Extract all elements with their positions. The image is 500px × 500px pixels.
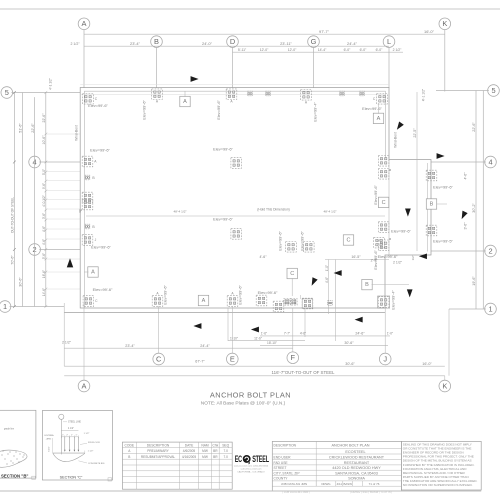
svg-text:30'-6": 30'-6" bbox=[345, 362, 355, 366]
panel C steel line leader bbox=[60, 419, 62, 454]
svg-text:EC: EC bbox=[235, 454, 243, 465]
left dim segment ticks bbox=[44, 91, 47, 94]
arrow down right-top bbox=[395, 122, 404, 132]
svg-text:A: A bbox=[94, 160, 97, 164]
interior bolt near right row2 bbox=[374, 237, 385, 248]
svg-text:F: F bbox=[291, 353, 296, 362]
grid bubble 5 right bbox=[488, 85, 500, 97]
grid bubble F bottom bbox=[287, 352, 299, 364]
panel C concrete break line bbox=[53, 453, 85, 462]
anchor bolt bottom col E bbox=[227, 296, 238, 307]
svg-text:THE FABRICATOR ARE SPECIFICALL: THE FABRICATOR ARE SPECIFICALLY EXCLUDED… bbox=[403, 479, 478, 483]
svg-text:16'-0": 16'-0" bbox=[422, 362, 432, 366]
svg-text:Elev=99'-6": Elev=99'-6" bbox=[373, 185, 378, 205]
top dimension row 3 bbox=[233, 51, 404, 53]
svg-text:4: 4 bbox=[488, 157, 492, 166]
north arrow top bbox=[191, 76, 199, 82]
svg-text:4'-6": 4'-6" bbox=[42, 226, 46, 232]
svg-text:Elev=99'-5": Elev=99'-5" bbox=[433, 239, 453, 244]
sheet bottom border bbox=[0, 490, 481, 492]
small bolt top edge 3 bbox=[340, 91, 345, 96]
grid bubble E bottom bbox=[227, 353, 239, 365]
svg-text:4 1/2": 4 1/2" bbox=[68, 428, 74, 430]
arrow left bottom 2 bbox=[251, 327, 259, 333]
svg-text:B: B bbox=[92, 225, 95, 229]
svg-text:24'-4": 24'-4" bbox=[347, 41, 358, 46]
panel B concrete blob bbox=[0, 450, 27, 467]
svg-text:4420 OLD REDWOOD HWY: 4420 OLD REDWOOD HWY bbox=[332, 466, 381, 470]
svg-text:OUT-TO-OUT OF STEEL: OUT-TO-OUT OF STEEL bbox=[11, 197, 15, 233]
svg-text:18'-10": 18'-10" bbox=[267, 341, 277, 345]
svg-text:SECTION "B": SECTION "B" bbox=[1, 473, 28, 478]
svg-text:Elev=99'-6": Elev=99'-6" bbox=[91, 245, 111, 250]
svg-text:1: 1 bbox=[3, 302, 7, 311]
svg-text:Elev=99'-6": Elev=99'-6" bbox=[216, 100, 221, 120]
svg-text:30'-6": 30'-6" bbox=[19, 277, 23, 287]
solid box around corner bolt bbox=[378, 296, 390, 308]
svg-text:END USER: END USER bbox=[274, 456, 292, 460]
svg-text:E: E bbox=[230, 354, 235, 363]
svg-text:+BRG: +BRG bbox=[46, 439, 52, 441]
svg-text:A: A bbox=[230, 100, 233, 104]
leader from box B wing bbox=[437, 203, 447, 205]
svg-text:CONCRETE B/S: CONCRETE B/S bbox=[88, 463, 105, 465]
svg-text:6'-0": 6'-0" bbox=[344, 48, 352, 52]
svg-text:A: A bbox=[377, 116, 381, 122]
svg-text:FOUNDATION ANALYSIS, ELECTRICA: FOUNDATION ANALYSIS, ELECTRICAL AND bbox=[403, 467, 467, 471]
grid line 2 left bbox=[39, 249, 80, 251]
svg-text:| DRWG | 4/11 | BASW | 71 of 7: | DRWG | 4/11 | BASW | 71 of 76 | bbox=[350, 490, 393, 494]
svg-text:6'-0": 6'-0" bbox=[376, 48, 384, 52]
column box C notch bbox=[287, 268, 297, 278]
grid bubble A top bbox=[78, 18, 90, 30]
anchor bolt left edge row J bbox=[82, 235, 93, 246]
interior bolt D4 bbox=[231, 158, 242, 169]
svg-text:Elev=99'-6": Elev=99'-6" bbox=[278, 231, 283, 251]
svg-text:MW: MW bbox=[202, 455, 208, 459]
panel C small dims bbox=[62, 436, 79, 438]
grid bubble B top bbox=[151, 36, 163, 48]
svg-text:MW: MW bbox=[202, 449, 208, 453]
svg-text:12'-0": 12'-0" bbox=[260, 48, 269, 52]
grid bubble G top bbox=[308, 36, 320, 48]
anchor bolt right edge r2a bbox=[378, 222, 389, 233]
svg-text:4'-6": 4'-6" bbox=[300, 332, 306, 336]
svg-text:B: B bbox=[430, 202, 434, 208]
svg-text:116'-7"OUT-TO-OUT OF STEEL: 116'-7"OUT-TO-OUT OF STEEL bbox=[272, 370, 335, 375]
svg-text:10'-6": 10'-6" bbox=[42, 135, 46, 145]
anchor bolt top edge col D bbox=[226, 89, 237, 100]
grid line 4 right bbox=[431, 161, 486, 163]
column box A top mid bbox=[180, 96, 190, 106]
svg-text:K: K bbox=[442, 381, 447, 390]
svg-text:1'-0": 1'-0" bbox=[387, 332, 393, 336]
svg-text:7.0: 7.0 bbox=[223, 449, 228, 453]
bottom dim row C (y348) left bbox=[64, 347, 293, 349]
svg-text:Wind-Bent: Wind-Bent bbox=[394, 132, 398, 148]
svg-text:1'-0": 1'-0" bbox=[325, 265, 329, 271]
svg-text:Elev=99'-6": Elev=99'-6" bbox=[258, 290, 278, 295]
svg-text:B: B bbox=[154, 37, 159, 46]
grid bubble A bottom bbox=[78, 380, 90, 392]
svg-text:A: A bbox=[231, 292, 234, 296]
leader from box B right bbox=[372, 284, 410, 286]
arrow down mid-right bbox=[405, 209, 411, 217]
svg-text:SANTA ROSA, CA 95403: SANTA ROSA, CA 95403 bbox=[335, 471, 378, 475]
arrow down bottom right bbox=[407, 289, 413, 297]
right dimension verticals bbox=[475, 91, 477, 310]
svg-text:22'-6": 22'-6" bbox=[42, 113, 46, 123]
svg-text:2 1/2": 2 1/2" bbox=[393, 48, 403, 52]
svg-text:PRELIMINARY: PRELIMINARY bbox=[147, 449, 169, 453]
svg-text:30'-6": 30'-6" bbox=[344, 341, 354, 345]
svg-text:(Hold This Dimension): (Hold This Dimension) bbox=[257, 208, 290, 212]
wing inner lines bbox=[388, 160, 390, 256]
svg-text:DESIGN OF THE METAL BUILDING S: DESIGN OF THE METAL BUILDING SYSTEM AS bbox=[403, 459, 472, 463]
svg-text:BR: BR bbox=[213, 449, 218, 453]
grid bubble K top bbox=[439, 18, 451, 30]
svg-text:CITY, STATE, ZIP: CITY, STATE, ZIP bbox=[274, 471, 301, 475]
anchor bolt wing upper bbox=[426, 170, 437, 181]
svg-text:Elev=99'-6": Elev=99'-6" bbox=[213, 217, 233, 222]
svg-text:1": 1" bbox=[76, 435, 78, 437]
bottom small dim row A (y336) bbox=[260, 335, 390, 337]
grid line B leader bbox=[156, 46, 158, 88]
svg-text:SECTION "C": SECTION "C" bbox=[60, 476, 83, 480]
grid bubble C bottom bbox=[153, 353, 165, 365]
left extension lines from building edge bbox=[46, 133, 80, 135]
arrow left notch bbox=[334, 270, 342, 276]
svg-text:Chk: Chk bbox=[212, 443, 218, 447]
anchor bolt right edge r4b bbox=[378, 169, 389, 180]
svg-text:NO INSPECTION OR SUPERVISION I: NO INSPECTION OR SUPERVISION IS IMPLIED. bbox=[403, 483, 473, 487]
grid bubble 4 left bbox=[29, 156, 41, 168]
svg-text:1": 1" bbox=[62, 435, 64, 437]
grid line K leader bbox=[444, 29, 446, 91]
grid bubble 1 left bbox=[0, 301, 11, 313]
svg-text:23'-4": 23'-4" bbox=[125, 344, 135, 348]
leader column box A top bbox=[184, 92, 186, 98]
svg-text:J: J bbox=[95, 238, 97, 242]
svg-text:A: A bbox=[202, 298, 206, 304]
svg-text:3'-6": 3'-6" bbox=[464, 222, 468, 230]
top dimension row 2 bbox=[84, 45, 389, 47]
title block table bbox=[272, 441, 401, 491]
column box C right edge bbox=[378, 197, 388, 207]
bottom small dim row B (y341) bbox=[228, 340, 305, 342]
svg-text:9'-6": 9'-6" bbox=[42, 183, 46, 189]
svg-text:4'-6": 4'-6" bbox=[260, 255, 268, 259]
svg-text:71 of 76: 71 of 76 bbox=[369, 482, 380, 486]
top dimension row 1 bbox=[84, 33, 445, 35]
svg-text:CRICKLEWOOD RESTAURANT: CRICKLEWOOD RESTAURANT bbox=[329, 456, 385, 460]
grid bubble K bottom bbox=[439, 380, 451, 392]
grid line 4 left bbox=[39, 161, 80, 163]
anchor bolt top-right corner bbox=[377, 94, 388, 105]
svg-text:Elev=99'-6": Elev=99'-6" bbox=[93, 287, 113, 292]
grid line 5 right bbox=[436, 90, 489, 92]
anchor bolt step pair a bbox=[284, 299, 291, 306]
bottom dim row D (y366) bbox=[64, 365, 445, 367]
svg-text:23'-11": 23'-11" bbox=[280, 41, 292, 46]
svg-text:1/2": 1/2" bbox=[411, 255, 415, 260]
svg-text:C: C bbox=[95, 97, 98, 101]
interior bolt F2a bbox=[286, 242, 297, 253]
svg-text:48'-4 1/2": 48'-4 1/2" bbox=[323, 210, 336, 214]
anchor bolt step pair b bbox=[291, 299, 298, 306]
svg-text:4/11: 4/11 bbox=[337, 482, 343, 486]
svg-text:7'-7": 7'-7" bbox=[284, 332, 290, 336]
svg-text:STEEL LINE: STEEL LINE bbox=[68, 422, 81, 424]
grid line L leader bbox=[388, 46, 390, 88]
svg-text:67'-7": 67'-7" bbox=[195, 359, 205, 363]
grid line D leader bbox=[232, 46, 234, 88]
small bolt top edge 1 bbox=[248, 91, 253, 96]
svg-text:SEQ: SEQ bbox=[222, 443, 229, 447]
svg-text:J: J bbox=[383, 354, 387, 363]
svg-text:Elev=99'-6": Elev=99'-6" bbox=[378, 254, 398, 259]
revision table bbox=[122, 442, 232, 489]
svg-text:Elev=99'-6": Elev=99'-6" bbox=[238, 285, 243, 305]
anchor bolt top edge mid bbox=[301, 90, 312, 101]
solid box around bolt 307 bbox=[302, 299, 313, 308]
svg-text:CALIFORNIA - COLORADO: CALIFORNIA - COLORADO bbox=[237, 471, 265, 474]
svg-text:A: A bbox=[128, 449, 131, 453]
svg-text:1'-10": 1'-10" bbox=[230, 336, 238, 340]
svg-text:22'-6": 22'-6" bbox=[31, 123, 35, 133]
small bolt left edge B1 bbox=[85, 175, 90, 180]
grid line 1 left bbox=[10, 306, 64, 308]
svg-text:7.0: 7.0 bbox=[223, 455, 228, 459]
svg-text:16'-0": 16'-0" bbox=[424, 29, 435, 34]
svg-text:51'-6": 51'-6" bbox=[19, 123, 23, 133]
svg-text:A: A bbox=[91, 270, 95, 276]
svg-text:5'-11": 5'-11" bbox=[238, 48, 247, 52]
arrow up left edge bbox=[67, 258, 73, 267]
svg-text:MECHANICAL SYSTEMS AND / OR OT: MECHANICAL SYSTEMS AND / OR OTHER bbox=[403, 471, 466, 475]
svg-text:ANCHOR BOLT PLAN: ANCHOR BOLT PLAN bbox=[210, 390, 291, 399]
grid line G leader bbox=[313, 46, 315, 88]
svg-text:1: 1 bbox=[488, 304, 492, 313]
svg-text:BR: BR bbox=[213, 455, 218, 459]
svg-text:22'-6": 22'-6" bbox=[472, 122, 476, 132]
svg-text:70'-6": 70'-6" bbox=[11, 255, 15, 265]
small bolt top edge 2 bbox=[266, 91, 271, 96]
svg-text:48'-4 1/2": 48'-4 1/2" bbox=[173, 210, 186, 214]
svg-text:C: C bbox=[290, 271, 294, 277]
column box B wing bbox=[426, 199, 436, 209]
svg-text:M: M bbox=[389, 237, 392, 241]
column box A left lower bbox=[88, 267, 98, 277]
anchor bolt bottom-left corner bbox=[83, 296, 94, 307]
anchor bolt left edge cluster a bbox=[82, 192, 93, 203]
grid bubble J bottom bbox=[379, 353, 391, 365]
grid bubble 2 right bbox=[485, 245, 497, 257]
anchor bolt bottom-right corner bbox=[378, 297, 389, 308]
svg-text:2 1/2": 2 1/2" bbox=[393, 261, 403, 265]
notch dim lines bbox=[325, 259, 389, 261]
svg-text:PROFESSIONAL FOR THIS PROJECT.: PROFESSIONAL FOR THIS PROJECT. ONLY THE bbox=[403, 455, 474, 459]
arrow left bottom mid bbox=[355, 317, 363, 323]
grid line 5 left bbox=[11, 92, 80, 94]
building inner wall lines bbox=[84, 90, 385, 92]
svg-text:DESCRIPTION: DESCRIPTION bbox=[147, 443, 170, 447]
arrow left bottom 1 bbox=[193, 323, 201, 329]
anchor bolt bottom 278 bbox=[273, 301, 284, 312]
svg-text:Elev=99'-6": Elev=99'-6" bbox=[213, 147, 233, 152]
anchor bolt right edge r2b bbox=[378, 240, 389, 251]
svg-text:23'-4": 23'-4" bbox=[130, 41, 141, 46]
svg-text:3": 3" bbox=[79, 209, 82, 213]
svg-text:24'-4": 24'-4" bbox=[200, 344, 210, 348]
svg-text:G: G bbox=[311, 37, 317, 46]
svg-text:4/16/2005: 4/16/2005 bbox=[182, 455, 196, 459]
svg-text:4'-1 1/2": 4'-1 1/2" bbox=[422, 88, 426, 101]
svg-text:B: B bbox=[92, 176, 95, 180]
svg-text:2": 2" bbox=[71, 435, 73, 437]
svg-text:Elev=99'-4": Elev=99'-4" bbox=[313, 102, 318, 122]
svg-text:12'-0": 12'-0" bbox=[288, 48, 297, 52]
svg-text:16'-6": 16'-6" bbox=[42, 270, 46, 278]
panel C dim 4 1/2 bbox=[61, 429, 78, 431]
svg-text:Elev=99'-6": Elev=99'-6" bbox=[90, 148, 110, 153]
svg-text:4'-0 1/2": 4'-0 1/2" bbox=[42, 195, 46, 207]
svg-text:Elev=99'-6": Elev=99'-6" bbox=[88, 103, 108, 108]
svg-text:Elev=99'-4": Elev=99'-4" bbox=[391, 290, 396, 310]
svg-text:C: C bbox=[382, 200, 386, 206]
svg-text:A: A bbox=[82, 19, 87, 28]
notes box bbox=[401, 441, 481, 490]
svg-text:19'-6": 19'-6" bbox=[472, 276, 476, 286]
column box B bottom right bbox=[362, 279, 372, 289]
small bolt top edge 4 bbox=[360, 91, 365, 96]
svg-text:16'-5": 16'-5" bbox=[351, 255, 361, 259]
svg-text:3'-6": 3'-6" bbox=[42, 213, 46, 219]
svg-text:| JOB DATA-M1 JMN |: | JOB DATA-M1 JMN | bbox=[282, 490, 310, 494]
svg-text:2 1/2": 2 1/2" bbox=[62, 341, 72, 345]
svg-text:6'-0": 6'-0" bbox=[360, 48, 368, 52]
svg-text:Wind-Bent: Wind-Bent bbox=[75, 125, 79, 141]
svg-text:www.ecosteel.com 1-800-587-66: www.ecosteel.com 1-800-587-6604 bbox=[234, 465, 269, 468]
anchor bolt top edge col B bbox=[152, 89, 163, 100]
grid line 2 right bbox=[431, 250, 486, 252]
svg-text:22'-5": 22'-5" bbox=[413, 128, 417, 138]
svg-text:1'-6": 1'-6" bbox=[261, 332, 267, 336]
svg-text:Elev=99'-6": Elev=99'-6" bbox=[300, 231, 305, 251]
svg-text:1 1/2": 1 1/2" bbox=[84, 433, 90, 435]
svg-text:DESCRIPTION: DESCRIPTION bbox=[274, 444, 297, 448]
left dimension verticals bbox=[13, 93, 15, 307]
svg-text:JOB DATA-M1 JMN: JOB DATA-M1 JMN bbox=[281, 482, 307, 486]
svg-text:Elev=99'-6": Elev=99'-6" bbox=[362, 106, 382, 111]
svg-text:4'-6": 4'-6" bbox=[42, 239, 46, 245]
svg-text:COUNTY: COUNTY bbox=[274, 477, 289, 481]
svg-text:5: 5 bbox=[5, 88, 9, 97]
svg-text:1 1/2": 1 1/2" bbox=[88, 451, 94, 453]
svg-text:CODE: CODE bbox=[125, 443, 135, 447]
svg-text:4'-6": 4'-6" bbox=[464, 172, 468, 180]
svg-text:Elev=99'-6": Elev=99'-6" bbox=[373, 250, 378, 270]
svg-text:M: M bbox=[389, 168, 392, 172]
anchor bolt left edge cluster b bbox=[82, 199, 93, 210]
interior bolt D2 bbox=[231, 229, 242, 240]
column box A bottom bbox=[198, 295, 208, 305]
svg-text:B: B bbox=[365, 282, 369, 288]
arrow left wing bottom bbox=[419, 253, 427, 259]
bottom extension lines bbox=[83, 303, 85, 382]
svg-text:24'-0": 24'-0" bbox=[202, 41, 213, 46]
svg-text:grade line: grade line bbox=[4, 427, 15, 430]
column box A top right bbox=[373, 113, 383, 123]
panel C detail circle bbox=[59, 414, 64, 419]
svg-text:2": 2" bbox=[66, 435, 68, 437]
svg-text:L: L bbox=[387, 37, 391, 46]
svg-text:DATE: DATE bbox=[185, 443, 194, 447]
svg-text:K: K bbox=[442, 19, 447, 28]
svg-text:C: C bbox=[156, 354, 162, 363]
svg-text:11'-6": 11'-6" bbox=[254, 336, 262, 340]
svg-text:30'-2": 30'-2" bbox=[472, 203, 476, 213]
svg-text:DRWG: DRWG bbox=[321, 482, 331, 486]
svg-text:Elev=99'-6": Elev=99'-6" bbox=[163, 285, 168, 305]
grid bubble L top bbox=[383, 36, 395, 48]
svg-text:B: B bbox=[128, 455, 130, 459]
svg-text:FAD USE: FAD USE bbox=[274, 461, 289, 465]
EcoSteel logo bbox=[235, 454, 270, 465]
interior bolt F2b bbox=[304, 242, 315, 253]
anchor bolt right edge r4a bbox=[378, 156, 389, 167]
svg-text:sales@eco-steel.com: sales@eco-steel.com bbox=[241, 468, 262, 471]
anchor bolt bottom 261 bbox=[256, 295, 267, 306]
svg-text:A: A bbox=[183, 99, 187, 105]
svg-text:4'-1 1/2": 4'-1 1/2" bbox=[49, 78, 53, 90]
svg-text:FURNISHED BY THE FABRICATOR IS: FURNISHED BY THE FABRICATOR IS INCLUDED. bbox=[403, 463, 475, 467]
interior wall x336 bbox=[335, 260, 337, 309]
building outline outer steel line bbox=[80, 88, 431, 309]
svg-text:OR CONSTITUTE THAT THE ENGINEE: OR CONSTITUTE THAT THE ENGINEER IS THE bbox=[403, 446, 472, 450]
svg-text:4/6/2005: 4/6/2005 bbox=[183, 449, 196, 453]
interior vertical dim line mid-right bbox=[416, 92, 418, 251]
anchor bolt left edge row4 bbox=[82, 156, 93, 167]
svg-text:ECOSTEEL: ECOSTEEL bbox=[345, 450, 365, 454]
svg-text:C: C bbox=[95, 299, 98, 303]
panel C anchor rods bbox=[64, 437, 66, 451]
svg-text:A: A bbox=[156, 292, 159, 296]
sheet top border bbox=[0, 8, 500, 10]
detail panel B box bbox=[0, 410, 36, 478]
svg-text:5'-0": 5'-0" bbox=[42, 169, 46, 175]
svg-text:A: A bbox=[156, 100, 159, 104]
grid bubble 4 right bbox=[485, 156, 497, 168]
svg-text:Elev=99'-6": Elev=99'-6" bbox=[391, 229, 411, 234]
svg-text:5'-6": 5'-6" bbox=[42, 253, 46, 259]
anchor bolt bottom 308 bbox=[302, 298, 313, 309]
svg-text:E/STRNA: E/STRNA bbox=[45, 434, 55, 437]
svg-text:BASW: BASW bbox=[343, 482, 352, 486]
svg-text:STREET: STREET bbox=[274, 466, 287, 470]
svg-text:FIN FLOOR: FIN FLOOR bbox=[88, 442, 100, 444]
svg-text:2: 2 bbox=[488, 246, 492, 255]
svg-text:A: A bbox=[305, 100, 308, 104]
svg-text:2 1/2": 2 1/2" bbox=[70, 42, 80, 46]
svg-text:8 1/2": 8 1/2" bbox=[49, 446, 51, 452]
anchor bolt wing lower bbox=[426, 225, 437, 236]
svg-text:14'-4": 14'-4" bbox=[318, 48, 327, 52]
svg-text:NAM: NAM bbox=[201, 443, 209, 447]
column box C interior row2 bbox=[343, 235, 353, 245]
svg-text:97'-7": 97'-7" bbox=[319, 29, 330, 34]
svg-text:PARTS SUPPLIED BY ANYONE OTHER: PARTS SUPPLIED BY ANYONE OTHER THAN bbox=[403, 475, 469, 479]
